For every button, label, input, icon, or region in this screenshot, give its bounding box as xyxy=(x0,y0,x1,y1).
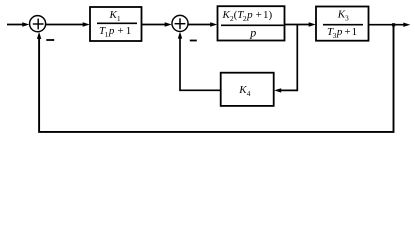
svg-text:p: p xyxy=(249,25,256,39)
svg-text:T3p+1: T3p+1 xyxy=(327,26,357,40)
svg-text:K2(T2p+1): K2(T2p+1) xyxy=(222,9,273,23)
